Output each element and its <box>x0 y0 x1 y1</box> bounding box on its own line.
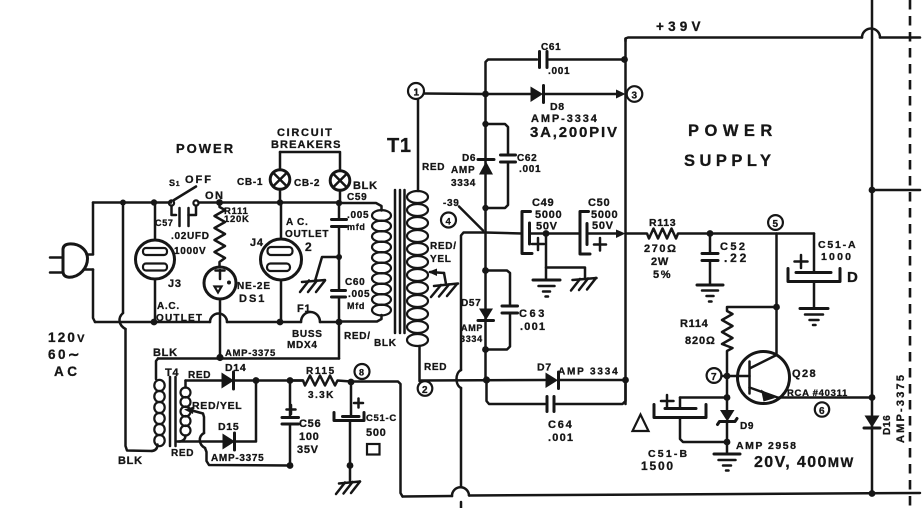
wire: stub from right bus to edge y=190 <box>872 189 920 192</box>
svg-text:R115: R115 <box>306 366 336 377</box>
svg-text:AMP-3375: AMP-3375 <box>211 453 264 464</box>
node: terminal 6 circle <box>815 402 829 417</box>
capacitor C51-B <box>654 395 727 442</box>
node: junction dot emitter/right bus <box>869 394 876 401</box>
svg-text:120K: 120K <box>224 214 250 225</box>
node: junction dot x=154 (J3 top) <box>151 199 157 205</box>
wire: C61 branch upper loop <box>486 60 538 95</box>
node: junction dot x=123 on top AC line <box>120 200 126 206</box>
svg-text:120V: 120V <box>48 330 87 345</box>
svg-text:BLK: BLK <box>353 180 378 192</box>
transformer T4 primary winding <box>154 380 164 446</box>
wire: main vertical x=625.5 node3 down to C64 <box>624 39 627 405</box>
symbol: small square marker <box>367 444 380 455</box>
node: junction dot C56 top <box>287 377 294 384</box>
diode D7 <box>546 372 626 389</box>
wire: node5 vertical down to R114/collector junction <box>775 234 778 308</box>
earth ground below C51-A <box>800 309 828 326</box>
node: junction dot J3 bottom <box>151 319 158 326</box>
svg-text:MDX4: MDX4 <box>287 340 318 351</box>
svg-text:AMP-3375: AMP-3375 <box>225 348 276 359</box>
wire: right solid bus x=872 full height <box>871 0 874 494</box>
wire: top AC line y=202.5 from plug corner to S1 <box>93 201 171 204</box>
wire: node1 to rectifier split <box>424 92 485 95</box>
svg-text:BUSS: BUSS <box>292 329 323 340</box>
svg-text:35V: 35V <box>297 444 319 456</box>
svg-text:.22: .22 <box>724 251 749 265</box>
svg-text:C63: C63 <box>519 308 547 320</box>
wire: dashed bus right edge <box>909 0 912 508</box>
node: junction dot D14/D15 join <box>253 377 260 384</box>
capacitor C51-A <box>788 255 840 308</box>
svg-text:mfd: mfd <box>347 222 366 232</box>
svg-text:AMP 3334: AMP 3334 <box>558 367 619 378</box>
node: terminal 1 circle <box>408 83 424 99</box>
svg-text:BREAKERS: BREAKERS <box>271 139 342 151</box>
node: terminal 5 circle <box>768 215 783 230</box>
svg-text:C61: C61 <box>541 42 561 53</box>
svg-text:C60: C60 <box>345 277 365 288</box>
node: junction dot D6/C62 bottom <box>482 205 488 211</box>
svg-text:CB-2: CB-2 <box>294 178 320 189</box>
svg-text:.001: .001 <box>520 321 546 333</box>
chassis ground near J4/C59 midpoint <box>300 257 339 292</box>
node: junction dot C61 right <box>621 56 628 63</box>
capacitor C57 across S1 <box>172 206 197 226</box>
svg-text:.001: .001 <box>548 66 570 77</box>
svg-text:3A,200PIV: 3A,200PIV <box>530 124 619 141</box>
svg-text:C62: C62 <box>517 153 537 164</box>
capacitor C49 <box>522 212 580 254</box>
svg-text:C50: C50 <box>588 197 610 209</box>
neon lamp DS1 <box>204 267 236 299</box>
svg-text:2: 2 <box>305 240 312 254</box>
transformer T4 core <box>170 377 176 446</box>
resistor R114 <box>722 307 777 376</box>
svg-text:C64: C64 <box>548 419 574 431</box>
wire: +39V rail with hop over right bus <box>626 28 921 41</box>
svg-text:POWER: POWER <box>176 141 235 156</box>
svg-text:A.C.: A.C. <box>157 301 180 312</box>
transformer T1 secondary winding <box>407 99 428 381</box>
wire: D8 branch <box>486 93 531 96</box>
svg-text:R114: R114 <box>680 318 709 330</box>
svg-text:RED/: RED/ <box>344 331 371 342</box>
svg-text:Mfd: Mfd <box>347 301 365 311</box>
svg-text:YEL: YEL <box>430 254 452 265</box>
node: junction dot C59/C60 midpoint <box>336 254 342 260</box>
svg-text:C59: C59 <box>347 192 367 203</box>
svg-text:NE-2E: NE-2E <box>237 281 271 292</box>
svg-text:RED: RED <box>171 448 194 459</box>
svg-text:500: 500 <box>366 427 386 439</box>
wire: node2 line y=380 to D7 <box>421 379 545 382</box>
svg-text:1: 1 <box>414 88 420 99</box>
chassis ground below C51-C <box>336 466 360 495</box>
node: junction dot R115/C51-C <box>348 379 355 386</box>
svg-text:DS1: DS1 <box>239 293 266 305</box>
wire: node8 line to x=400 and down to bottom rail <box>351 382 403 497</box>
node: terminal 2 circle <box>418 381 433 396</box>
svg-text:3334: 3334 <box>460 334 483 344</box>
wire: stub left to C51-B <box>680 396 727 399</box>
node: junction dot D7 right <box>622 377 629 384</box>
svg-text:8: 8 <box>359 368 365 378</box>
wire: D14 to R115 with junctions <box>234 379 303 382</box>
wire: collector lead <box>751 307 777 368</box>
svg-text:A C.: A C. <box>286 217 308 228</box>
svg-text:J4: J4 <box>250 237 264 249</box>
wire: D15 output up to D14 junction <box>235 381 256 442</box>
svg-text:50V: 50V <box>592 220 614 232</box>
svg-text:D9: D9 <box>740 421 754 432</box>
earth ground below C49/C50 <box>533 280 560 297</box>
svg-text:D14: D14 <box>225 362 246 374</box>
svg-text:3334: 3334 <box>451 178 476 189</box>
svg-text:D8: D8 <box>550 101 565 113</box>
wire: AC outlet bottom line y=322 <box>95 312 339 322</box>
node: junction dot D9 bottom <box>724 439 731 446</box>
node: junction dot x=219.5 (R111 top) <box>216 199 223 206</box>
svg-text:J3: J3 <box>168 278 182 290</box>
node: junction dot x=339 (CB-2 / C59 / T1 primary top) <box>336 200 342 206</box>
transformer T1 core <box>395 190 405 333</box>
node: junction dot C49/C50 mid <box>543 230 550 237</box>
svg-text:R113: R113 <box>649 217 676 229</box>
svg-text:T4: T4 <box>165 367 179 379</box>
svg-text:SUPPLY: SUPPLY <box>684 152 776 170</box>
socket J3 outlet circle <box>136 203 175 323</box>
wire: rail corner down to C51-A <box>813 234 816 273</box>
resistor R115 <box>290 376 351 386</box>
node: junction dot x=280 (CB-1 / J4) <box>277 199 283 205</box>
svg-text:RED/: RED/ <box>430 241 457 252</box>
svg-text:.02UFD: .02UFD <box>171 231 210 242</box>
svg-text:3: 3 <box>632 91 638 102</box>
svg-text:D15: D15 <box>218 421 239 433</box>
node: junction dot DS1 bottom on bias rail <box>216 354 223 361</box>
wire: -39 rail corner down x=461 <box>457 233 486 508</box>
svg-text:T1: T1 <box>387 135 412 157</box>
svg-text:5: 5 <box>773 219 779 230</box>
node: terminal 8 circle <box>355 364 370 379</box>
capacitor C50 <box>580 212 626 255</box>
svg-text:3.3K: 3.3K <box>308 390 335 401</box>
svg-text:CB-1: CB-1 <box>237 177 263 188</box>
AC plug prongs <box>50 258 63 273</box>
capacitor C61 <box>540 52 625 68</box>
svg-text:C56: C56 <box>299 418 321 430</box>
capacitor C63 <box>486 271 518 350</box>
node: junction dot bottom rail/right bus <box>869 490 876 497</box>
svg-text:OFF: OFF <box>185 174 213 186</box>
svg-text:RED: RED <box>422 162 445 173</box>
wire: plug stubs and lower vertical x=93 to AC outlet line <box>84 255 95 323</box>
wire: C49/C50 midpoint to grounds <box>546 234 585 281</box>
T4 center tap wire with arrow, hop, down to ground rail <box>184 407 290 466</box>
svg-text:RED/YEL: RED/YEL <box>192 400 242 412</box>
wire: main filter rail y=233.5 <box>486 233 523 234</box>
node: junction dot D57/C63 bottom <box>482 346 489 353</box>
circuit breaker CB-1 <box>270 152 290 203</box>
svg-text:.001: .001 <box>548 432 574 444</box>
resistor R113 <box>626 229 815 239</box>
node: junction dot D57/C63 top <box>482 267 489 274</box>
AC plug body <box>63 244 88 277</box>
svg-text:5000: 5000 <box>535 209 562 221</box>
socket J4 outlet circle <box>261 203 302 323</box>
svg-text:+39V: +39V <box>656 19 705 34</box>
node: junction dot C51-C bottom <box>347 462 354 469</box>
svg-text:D: D <box>847 269 859 286</box>
svg-text:.005: .005 <box>347 210 369 221</box>
svg-text:60∼: 60∼ <box>48 347 82 362</box>
wire: main vertical x=485.5 from split down to node2 line <box>484 94 487 380</box>
switch S1 contacts and arm <box>169 187 199 206</box>
node: terminal 4 circle <box>441 213 456 228</box>
capacitor C60 <box>332 257 346 322</box>
node: junction dot J4 bottom <box>277 319 284 326</box>
wire: emitter line to right bus <box>779 396 872 399</box>
node: junction dot C52 top <box>707 230 714 237</box>
node: junction dot base/R114 <box>724 373 731 380</box>
svg-text:BLK: BLK <box>118 455 143 467</box>
svg-text:CIRCUIT: CIRCUIT <box>277 127 334 139</box>
svg-text:POWER: POWER <box>688 122 778 140</box>
svg-text:F1: F1 <box>297 303 311 315</box>
svg-text:C51-C: C51-C <box>366 413 397 424</box>
symbol: triangle marker <box>633 415 649 432</box>
wire: T4 secondary top lead to D14 <box>186 379 223 382</box>
svg-text:270Ω: 270Ω <box>644 243 678 255</box>
node: terminal 3 circle <box>627 86 643 102</box>
capacitor C51-C <box>334 382 364 466</box>
svg-text:Q28: Q28 <box>792 368 817 380</box>
svg-text:C51-A: C51-A <box>818 239 857 251</box>
svg-text:OUTLET: OUTLET <box>156 313 203 324</box>
node: junction dot rectifier split <box>482 91 489 98</box>
earth ground below D9 <box>714 442 740 471</box>
resistor R111 <box>215 203 226 268</box>
svg-text:6: 6 <box>819 406 825 417</box>
svg-text:1000: 1000 <box>821 251 853 263</box>
capacitor C64 in loop below D7 <box>487 380 626 412</box>
transformer T4 secondary winding <box>181 381 191 436</box>
earth ground below C52 <box>697 285 723 302</box>
svg-text:100: 100 <box>299 431 319 443</box>
svg-text:AMP: AMP <box>461 323 483 333</box>
transistor Q28 <box>722 352 790 404</box>
node: junction dot C60/F1/T1-primary <box>336 319 343 326</box>
node: junction dot right bus y=190 <box>869 187 876 194</box>
svg-text:2W: 2W <box>651 256 669 268</box>
capacitor C59 <box>332 203 347 258</box>
chassis ground right of earth ground <box>571 278 597 291</box>
node: junction dot D57 branch on node2 line <box>483 376 490 383</box>
svg-text:C49: C49 <box>532 197 554 209</box>
svg-text:4: 4 <box>446 217 452 228</box>
svg-text:RED: RED <box>424 362 447 373</box>
diode D16 <box>864 416 880 429</box>
diode D8 <box>531 86 626 103</box>
svg-text:20V, 400MW: 20V, 400MW <box>754 454 855 471</box>
transformer T1 primary winding <box>339 203 391 322</box>
node: junction dot C62 top stub <box>482 121 488 127</box>
svg-text:D57: D57 <box>461 298 481 309</box>
svg-text:1500: 1500 <box>641 459 675 473</box>
svg-text:D7: D7 <box>537 362 552 374</box>
wire: CB bracket <box>280 151 340 154</box>
wire: base junction down to D9/C51-B junction <box>726 376 729 398</box>
svg-text:1000V: 1000V <box>174 246 206 257</box>
svg-text:.005: .005 <box>348 289 370 300</box>
svg-text:AMP-3375: AMP-3375 <box>895 373 907 443</box>
svg-text:820Ω: 820Ω <box>685 335 716 347</box>
wire: left vertical x=93 from top line down to plug <box>92 203 95 255</box>
wire: x=339 from AC line down to bias rail y=358.5 <box>338 322 341 359</box>
svg-text:BLK: BLK <box>153 347 178 359</box>
svg-text:OUTLET: OUTLET <box>285 229 329 240</box>
diode D57 <box>478 309 494 321</box>
capacitor C62 <box>486 124 516 208</box>
diode D14 <box>222 372 235 389</box>
svg-text:D6: D6 <box>462 153 476 164</box>
wire: T4 secondary bottom lead to D15 <box>177 436 223 442</box>
T1 center tap with arrow and chassis ground <box>428 269 458 298</box>
diode D15 <box>223 433 236 450</box>
svg-text:BLK: BLK <box>374 338 397 349</box>
svg-text:.001: .001 <box>519 164 541 175</box>
circuit breaker CB-2 <box>330 153 350 203</box>
label -39 with pointer to rail <box>443 198 483 231</box>
node: terminal 7 circle <box>707 368 722 383</box>
svg-text:C57: C57 <box>155 218 174 228</box>
node: junction dot R114/collector <box>773 304 780 311</box>
wire: vertical x=123 from top line down to T4 (jog at AC line) <box>119 203 157 452</box>
node: junction dot D9 top / C51-B <box>724 394 731 401</box>
diode D6 <box>478 160 494 175</box>
svg-text:5%: 5% <box>653 269 672 281</box>
capacitor C56 <box>282 381 299 466</box>
wire: bottom rail with hop at x=461 <box>403 487 921 496</box>
svg-text:AC: AC <box>54 364 81 379</box>
wire: top AC line y=202.5 from S1 to CB-2 junction <box>199 201 340 204</box>
svg-text:-39: -39 <box>443 198 460 209</box>
wire: DS1 bottom lead <box>219 299 222 357</box>
svg-text:AMP 2958: AMP 2958 <box>736 440 797 452</box>
svg-text:2: 2 <box>422 385 428 396</box>
capacitor C52 <box>702 234 718 285</box>
node: junction dot C56 bottom <box>287 462 294 469</box>
svg-text:7: 7 <box>711 372 717 383</box>
svg-text:AMP: AMP <box>451 165 475 176</box>
diode D9 zener <box>718 398 738 443</box>
svg-text:D16: D16 <box>882 415 893 435</box>
wire: bias rail y=358.5 from T4 corner to x=339 <box>156 359 339 380</box>
